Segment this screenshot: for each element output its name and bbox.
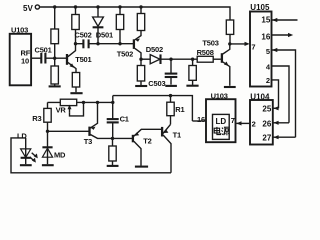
wire pin 4 to U104 pin 26 bbox=[272, 66, 290, 123]
junction T503 collector node bbox=[228, 42, 231, 45]
svg-text:7: 7 bbox=[251, 43, 255, 52]
wire VR-node jog up bbox=[112, 96, 114, 103]
svg-text:C502: C502 bbox=[75, 30, 92, 39]
ground (T503 emitter) bbox=[224, 86, 236, 88]
LD power inner box bbox=[213, 114, 230, 139]
junction rail-R502 bbox=[74, 5, 77, 8]
junction C1 top node bbox=[111, 101, 114, 104]
transistor T1 bbox=[162, 124, 181, 172]
wire to U105 pin 7 with arrow bbox=[230, 42, 250, 46]
resistor R508 bbox=[197, 48, 221, 62]
svg-text:D502: D502 bbox=[146, 45, 163, 54]
wire VR line bbox=[48, 101, 113, 103]
diode D501 bbox=[93, 7, 113, 44]
svg-text:T503: T503 bbox=[202, 38, 218, 47]
junction T501 collector node bbox=[74, 42, 77, 45]
junction T3 emitter node bbox=[96, 101, 99, 104]
svg-text:R1: R1 bbox=[175, 105, 184, 114]
diode D502 bbox=[146, 45, 197, 64]
capacitor C1 bbox=[107, 102, 129, 138]
svg-text:T501: T501 bbox=[75, 55, 91, 64]
junction R508 left node bbox=[191, 58, 194, 61]
capacitor C501 bbox=[31, 45, 66, 63]
label 源 (power text) bbox=[222, 127, 230, 135]
ground (T2) bbox=[135, 166, 148, 168]
wire 5V rail bbox=[40, 7, 230, 20]
wire pin 16 output arrow bbox=[272, 33, 294, 37]
svg-text:7: 7 bbox=[231, 116, 235, 125]
ground (bias resistor) bbox=[49, 85, 61, 87]
svg-text:R3: R3 bbox=[32, 114, 41, 123]
junction D501-coupling wire bbox=[96, 42, 99, 45]
junction C503 top bbox=[169, 58, 172, 61]
wire pin 2 to U104 pin 25 bbox=[272, 80, 279, 108]
transistor T501 bbox=[67, 44, 92, 73]
op-amp U105 box bbox=[250, 3, 272, 86]
wire T502 collector line bbox=[141, 58, 150, 60]
photodiode MD bbox=[42, 131, 66, 164]
svg-text:LD: LD bbox=[215, 117, 226, 126]
svg-text:VR: VR bbox=[56, 105, 67, 114]
junction T3 base / MD node bbox=[46, 130, 49, 133]
capacitor C503 bbox=[148, 59, 177, 88]
junction VR wiper return bbox=[82, 101, 85, 104]
transistor T502 bbox=[117, 31, 141, 60]
transistor T503 bbox=[202, 38, 229, 85]
wire pin 15 input arrow bbox=[272, 18, 298, 22]
svg-text:2: 2 bbox=[266, 76, 270, 85]
svg-text:T1: T1 bbox=[173, 130, 181, 139]
junction resistor-coupling wire bbox=[118, 42, 121, 45]
wire into pin 26 arrow bbox=[273, 121, 289, 125]
wire mid rail (VR node to pin 16) bbox=[113, 96, 193, 121]
svg-text:MD: MD bbox=[54, 151, 66, 160]
wire U103 pin 16 bbox=[192, 120, 206, 122]
wire coupling line to T502 base bbox=[76, 43, 84, 45]
resistor (bias, top of C501 node) bbox=[51, 7, 59, 58]
ground (LD) bbox=[20, 164, 32, 166]
resistor R3 bbox=[32, 102, 51, 131]
ground (T501 emitter resistor) bbox=[70, 92, 82, 94]
svg-text:4: 4 bbox=[266, 63, 271, 72]
resistor (T501 collector load) bbox=[72, 7, 79, 44]
wire into pin 25 arrow bbox=[273, 106, 279, 110]
junction rail-R505 bbox=[139, 5, 142, 8]
svg-text:C1: C1 bbox=[120, 114, 129, 123]
svg-text:10: 10 bbox=[21, 56, 29, 65]
ground (T502 node resistor) bbox=[135, 85, 147, 87]
junction C501-R junction node bbox=[53, 57, 56, 60]
IC U103 LD power box bbox=[206, 92, 236, 143]
resistor (T3 collector to ground) bbox=[109, 138, 116, 165]
svg-text:C501: C501 bbox=[35, 45, 52, 54]
svg-text:16: 16 bbox=[197, 115, 205, 124]
wire pin 5 to U104 pin 27 bbox=[272, 48, 296, 137]
wire into pin 27 arrow bbox=[273, 135, 296, 139]
resistor R1 bbox=[167, 96, 185, 125]
wire U104 pin 2 to U103 pin 7 with arrow bbox=[236, 121, 250, 125]
svg-text:15: 15 bbox=[261, 16, 270, 25]
IC U104 box bbox=[250, 92, 273, 144]
svg-text:26: 26 bbox=[262, 119, 271, 128]
resistor (T503 collector load from rail) bbox=[226, 20, 233, 44]
junction rail-R501 bbox=[53, 5, 56, 8]
label 电 (power text) bbox=[214, 127, 220, 135]
transistor T3 bbox=[84, 102, 133, 145]
wire bottom return rail bbox=[11, 138, 171, 173]
ground (R508 node resistor) bbox=[186, 85, 198, 87]
svg-text:T2: T2 bbox=[143, 136, 151, 145]
svg-text:25: 25 bbox=[262, 105, 271, 114]
junction T502-R-D502 node bbox=[139, 58, 142, 61]
resistor (to ground at R508 node) bbox=[189, 59, 196, 85]
ground (C503) bbox=[165, 85, 177, 87]
junction R1 top bbox=[169, 94, 172, 97]
transistor T2 bbox=[133, 129, 161, 165]
ground (T3 resistor) bbox=[107, 165, 119, 167]
svg-text:T3: T3 bbox=[84, 137, 92, 146]
junction rail-D501 bbox=[96, 5, 99, 8]
junction T3 collector / C1 / R node bbox=[111, 137, 114, 140]
junction rail-R504 bbox=[118, 5, 121, 8]
resistor (to ground at T502 node) bbox=[137, 59, 144, 85]
ground (MD) bbox=[42, 164, 54, 166]
node 5V supply terminal bbox=[23, 4, 40, 13]
svg-text:16: 16 bbox=[261, 33, 270, 42]
resistor (base bias to ground) bbox=[51, 58, 58, 85]
capacitor C502 bbox=[75, 30, 134, 48]
svg-text:T502: T502 bbox=[117, 50, 133, 59]
resistor (T502 emitter to rail) bbox=[137, 7, 144, 31]
svg-text:C503: C503 bbox=[148, 79, 165, 88]
wire T3 base bbox=[48, 130, 89, 132]
resistor (T501 emitter) bbox=[72, 73, 79, 93]
svg-text:5: 5 bbox=[266, 47, 270, 56]
svg-text:5V: 5V bbox=[23, 4, 33, 13]
laser diode LD bbox=[17, 131, 31, 164]
IC U103 RF module bbox=[10, 26, 31, 86]
resistor (T502 base pull) bbox=[116, 7, 123, 44]
svg-text:2: 2 bbox=[252, 119, 256, 128]
light emission arrows bbox=[30, 153, 38, 163]
potentiometer VR bbox=[56, 99, 84, 116]
svg-text:27: 27 bbox=[262, 134, 271, 143]
